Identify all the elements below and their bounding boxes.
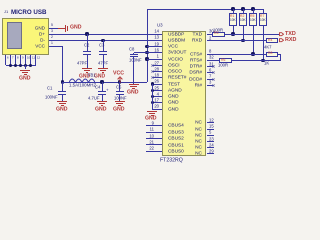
U3 pin 13 USBDM name (168, 38, 185, 43)
U3 pin 28 number (0, 67, 159, 71)
part number FT232RQ (160, 158, 183, 163)
wire bus to ground (25, 65, 26, 69)
J1 shell pin number 11 (32, 57, 35, 60)
junction rail R1 (231, 7, 234, 10)
wire R7 to RTS row (263, 26, 264, 60)
port TXD (279, 32, 284, 37)
U3 pin 7 DCD# name (2, 77, 202, 82)
U3 pin 6 number (209, 68, 211, 72)
GND power port at J1 GND pin (56, 28, 58, 29)
J1 pin 5 stub (GND) (49, 28, 56, 29)
J1 pin label VCC (0, 44, 45, 49)
U3 pin 1 number (0, 54, 159, 58)
U3 pin 8 number (209, 49, 211, 53)
U3 NC pin 29 stub (207, 153, 214, 154)
wire RXD row (207, 40, 266, 41)
wire GND pin 20 row (152, 109, 162, 110)
capacitor C3 (103, 40, 104, 51)
wire C5 to ground (119, 96, 120, 102)
wire GND pin 17 row (152, 102, 162, 103)
wire VCC pull-up rail top (147, 9, 263, 10)
capacitor C8 (133, 52, 134, 55)
label MICRO USB (11, 9, 46, 15)
wire TEST row (152, 84, 162, 85)
U3 NC name (2, 145, 202, 150)
wire RTS stub (207, 60, 219, 61)
U3 pin 7 number (209, 74, 211, 78)
junction AGND (151, 89, 154, 92)
U3 pin 25 number (0, 86, 159, 90)
U3 pin 18 RESET# name (168, 75, 186, 80)
label GND C8 (127, 90, 139, 95)
U3 pin 25 AGND name (168, 88, 182, 93)
U3 pin 3 RI# name (2, 83, 202, 88)
ground symbol C3 (98, 68, 108, 69)
U3 pin 14 number (0, 29, 159, 33)
U3 pin 30 number (209, 29, 214, 33)
wire corner down to RTS (280, 54, 281, 60)
J1 pin label GND (0, 26, 45, 31)
U3 pin 10 CBUS2 stub (146, 138, 162, 139)
ground symbol C5 (115, 101, 125, 102)
junction 3V3OUT pin 16 (145, 51, 148, 54)
J1 shell pin number 9 (22, 57, 24, 60)
wire C3 to ground (103, 56, 104, 68)
wire AGND row (152, 90, 162, 91)
U3 pin stub DTR# (207, 66, 214, 67)
U3 pin 11 CBUS3 stub (146, 132, 162, 133)
junction rail R5 (251, 7, 254, 10)
J1 shell pin 6 stub (5, 55, 6, 65)
wire VCC vertical to pins and pull-up rail (147, 9, 148, 82)
wire GND pin 4 row (152, 96, 162, 97)
wire D- net (J1 to U3 USBDM) (56, 40, 162, 41)
capacitor C5 (119, 82, 120, 91)
capacitor C2 (87, 34, 88, 51)
U3 pin 17 GND name (168, 100, 179, 105)
junction rail R2 (241, 7, 244, 10)
wire R5 to CTS row (253, 26, 254, 54)
U3 pin stub DSR# (207, 72, 214, 73)
junction VCCIO pin 1 (145, 57, 148, 60)
U3 pin stub RESET# (153, 77, 163, 78)
U3 pin 19 number (0, 42, 159, 46)
resistor R8 1K (CTS-RTS) (266, 52, 278, 57)
junction GND 17 (151, 101, 154, 104)
J1 shell pin 9 stub (20, 55, 21, 65)
junction VBUS / C1 (61, 80, 64, 83)
U3 pin 31 DTR# name (2, 64, 202, 69)
U3 NC name (2, 127, 202, 132)
label GND C4 (95, 107, 107, 112)
label GND C2 (79, 74, 90, 79)
J1 shell pin number 6 (7, 57, 9, 60)
junction (19, 64, 22, 67)
resistor R1 pull-up (233, 9, 234, 13)
U3 pin 16 number (0, 48, 159, 52)
J1 shell pin number 7 (12, 57, 14, 60)
J1 shell pin number 8 (17, 57, 19, 60)
wire VCC pin row (147, 46, 162, 47)
resistor R3 100R (TXD) (212, 32, 225, 37)
U3 pin 1 VCCIO name (168, 57, 183, 62)
junction VCC / C5 (118, 80, 121, 83)
junction GND 4 (151, 95, 154, 98)
U3 pin stub DCD# (207, 79, 214, 80)
ground symbol C4 (97, 101, 107, 102)
U3 NC name (2, 151, 202, 156)
U3 pin 26 TEST name (168, 82, 180, 87)
wire TXD to port (225, 34, 279, 35)
designator U3 (157, 23, 163, 27)
resistor R5 pull-up (253, 9, 254, 13)
U3 pin 8 CTS# name (2, 52, 202, 57)
U3 pin 21 CBUS1 stub (146, 144, 162, 145)
U3 pin stub OSCI (153, 65, 163, 66)
J1 shell pin 12 stub (35, 55, 36, 65)
U3 pin 22 CBUS0 name (168, 149, 184, 154)
ground symbol C1 (57, 101, 67, 102)
J1 pin label D- (0, 38, 45, 43)
wire CTS row (207, 54, 267, 55)
label GND C1 (56, 107, 68, 112)
wire TXD stub (207, 34, 212, 35)
junction D+ / C2 (85, 32, 88, 35)
resistor R7 pull-up (263, 9, 264, 13)
U3 NC pin 12 stub (207, 122, 214, 123)
junction (9, 64, 12, 67)
junction (24, 64, 27, 67)
U3 pin 3 number (209, 80, 211, 84)
J1 pin 1 stub (VCC) (49, 46, 56, 47)
wire VCCIO pin row (147, 59, 162, 60)
port RXD (279, 38, 284, 43)
capacitor C1 (62, 82, 63, 91)
wire J1 shell bus (6, 65, 36, 66)
U3 pin 20 number (0, 104, 159, 108)
U3 NC pin 5 stub (207, 135, 214, 136)
junction D- / C3 (101, 39, 104, 42)
J1 shell pin number 12 (37, 57, 40, 60)
U3 pin 10 number (0, 134, 154, 138)
U3 pin 22 number (0, 146, 154, 150)
U3 pin 27 number (0, 61, 159, 65)
wire R1 to TXD row (233, 26, 234, 34)
U3 pin 28 OSCO name (168, 69, 182, 74)
U3 pin 17 number (0, 98, 159, 102)
U3 NC pin number (209, 143, 214, 147)
U3 pin 9 number (0, 121, 154, 125)
wire 3V3OUT pin row (134, 52, 163, 53)
wire GND rail vertical (152, 84, 153, 110)
wire D+ net (J1 to U3 USBDP) (56, 34, 162, 35)
U3 pin 4 GND name (168, 94, 179, 99)
IC U3 FT232RQ body (162, 31, 206, 157)
U3 pin 11 CBUS3 name (168, 130, 184, 135)
U3 NC pin 23 stub (207, 141, 214, 142)
U3 pin 32 RTS# name (2, 58, 202, 63)
capacitor C4 polarized (102, 82, 103, 91)
U3 NC name (2, 120, 202, 125)
junction VCC / C4 (100, 80, 103, 83)
U3 pin 21 CBUS1 name (168, 143, 184, 148)
U3 pin 30 TXD name (2, 32, 202, 37)
U3 pin 16 3V3OUT name (168, 50, 186, 55)
U3 pin 2 RXD name (2, 38, 202, 43)
U3 pin 4 number (0, 92, 159, 96)
power port VCC (117, 76, 123, 83)
junction (14, 64, 17, 67)
U3 pin stub RI# (207, 85, 214, 86)
U3 NC pin number (209, 130, 211, 134)
wire R2 to RXD row (243, 26, 244, 41)
U3 NC name (2, 139, 202, 144)
U3 NC name (2, 133, 202, 138)
U3 pin 20 GND name (168, 107, 179, 112)
U3 pin 18 number (0, 73, 159, 77)
J1 shell pin number 10 (27, 57, 30, 60)
J1 shell pin 11 stub (30, 55, 31, 65)
ground symbol U3 (147, 111, 157, 112)
label GND C5 (113, 107, 125, 112)
label GND U3 (145, 116, 157, 121)
junction TEST (151, 82, 154, 85)
J1 shell pin 7 stub (10, 55, 11, 65)
U3 NC pin number (209, 137, 214, 141)
U3 pin 11 number (0, 127, 154, 131)
ground symbol C8 (129, 84, 139, 85)
J1 pin 3 stub (D+) (49, 34, 56, 35)
junction (29, 64, 32, 67)
ground symbol below J1 (20, 70, 30, 71)
U3 pin 9 CBUS4 stub (146, 125, 162, 126)
U3 pin 14 USBDP name (168, 32, 184, 37)
junction R7 RTS (261, 59, 264, 62)
U3 pin 21 number (0, 140, 154, 144)
U3 pin 26 number (0, 79, 159, 83)
junction R2 RXD (241, 39, 244, 42)
U3 pin 2 number (209, 36, 211, 40)
U3 pin 22 CBUS0 stub (146, 151, 162, 152)
ground symbol C2 (82, 68, 92, 69)
resistor R4 4K7 (RXD) (266, 38, 278, 43)
ferrite bead FB1 (69, 78, 95, 83)
U3 pin 32 number (209, 55, 214, 59)
wire 1K to corner (278, 54, 281, 55)
U3 pin 9 CBUS4 name (168, 123, 184, 128)
U3 pin 31 number (209, 62, 214, 66)
junction R5 CTS (251, 52, 254, 55)
U3 NC pin 15 stub (207, 129, 214, 130)
wire C2 to ground (87, 56, 88, 68)
U3 pin stub OSCO (153, 71, 163, 72)
connector J1 MICRO USB body (2, 18, 49, 56)
wire RTS row to corner (232, 60, 281, 61)
connector J1 shield block (7, 22, 22, 49)
J1 shell pin 8 stub (15, 55, 16, 65)
U3 pin 19 VCC name (168, 44, 178, 49)
junction VCC pin 19 (145, 45, 148, 48)
resistor R6 100R (RTS) (219, 58, 232, 63)
U3 NC pin number (209, 118, 214, 122)
label GND C3 (94, 74, 105, 79)
junction R1 TXD (231, 32, 234, 35)
U3 NC pin number (209, 124, 214, 128)
wire VCC from J1 (56, 46, 62, 47)
wire C8 to ground (133, 58, 134, 84)
designator J1 (4, 10, 8, 14)
wire VBUS down (62, 46, 63, 82)
wire C4 to ground (102, 95, 103, 101)
label GND below J1 (19, 76, 31, 81)
U3 NC pin number (209, 149, 214, 153)
J1 shell pin 10 stub (25, 55, 26, 65)
wire C1 to ground (62, 95, 63, 101)
U3 NC pin 24 stub (207, 147, 214, 148)
J1 pin 2 stub (D-) (49, 40, 56, 41)
resistor R2 pull-up (243, 9, 244, 13)
U3 pin 13 number (0, 35, 159, 39)
J1 pin label D+ (0, 32, 45, 37)
U3 pin 6 DSR# name (2, 70, 202, 75)
U3 pin 10 CBUS2 name (168, 136, 184, 141)
wire VCC rail after FB1 (62, 82, 147, 83)
U3 pin 27 OSCI name (168, 63, 180, 68)
